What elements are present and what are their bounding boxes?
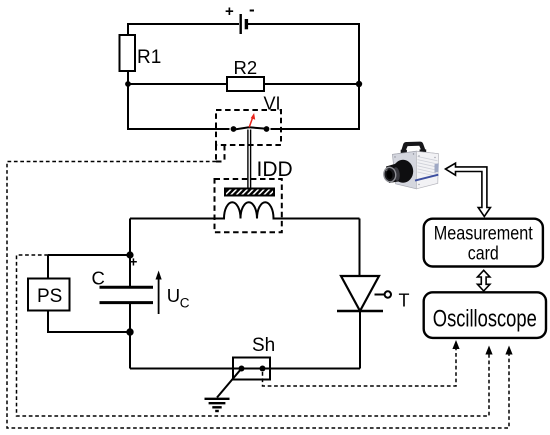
svg-text:Sh: Sh bbox=[252, 335, 275, 356]
svg-text:PS: PS bbox=[37, 286, 62, 307]
svg-text:+: + bbox=[130, 255, 138, 270]
svg-text:C: C bbox=[180, 295, 190, 310]
svg-text:C: C bbox=[92, 268, 105, 289]
svg-text:card: card bbox=[468, 244, 499, 265]
svg-text:T: T bbox=[399, 290, 410, 310]
svg-text:R2: R2 bbox=[234, 57, 258, 78]
svg-text:Measurement: Measurement bbox=[434, 224, 534, 245]
svg-text:VI: VI bbox=[264, 94, 281, 114]
svg-text:+: + bbox=[225, 3, 234, 20]
svg-text:Oscilloscope: Oscilloscope bbox=[433, 305, 537, 332]
svg-text:-: - bbox=[249, 0, 255, 19]
svg-text:U: U bbox=[167, 285, 180, 306]
svg-text:IDD: IDD bbox=[257, 158, 293, 181]
svg-text:R1: R1 bbox=[137, 47, 161, 68]
